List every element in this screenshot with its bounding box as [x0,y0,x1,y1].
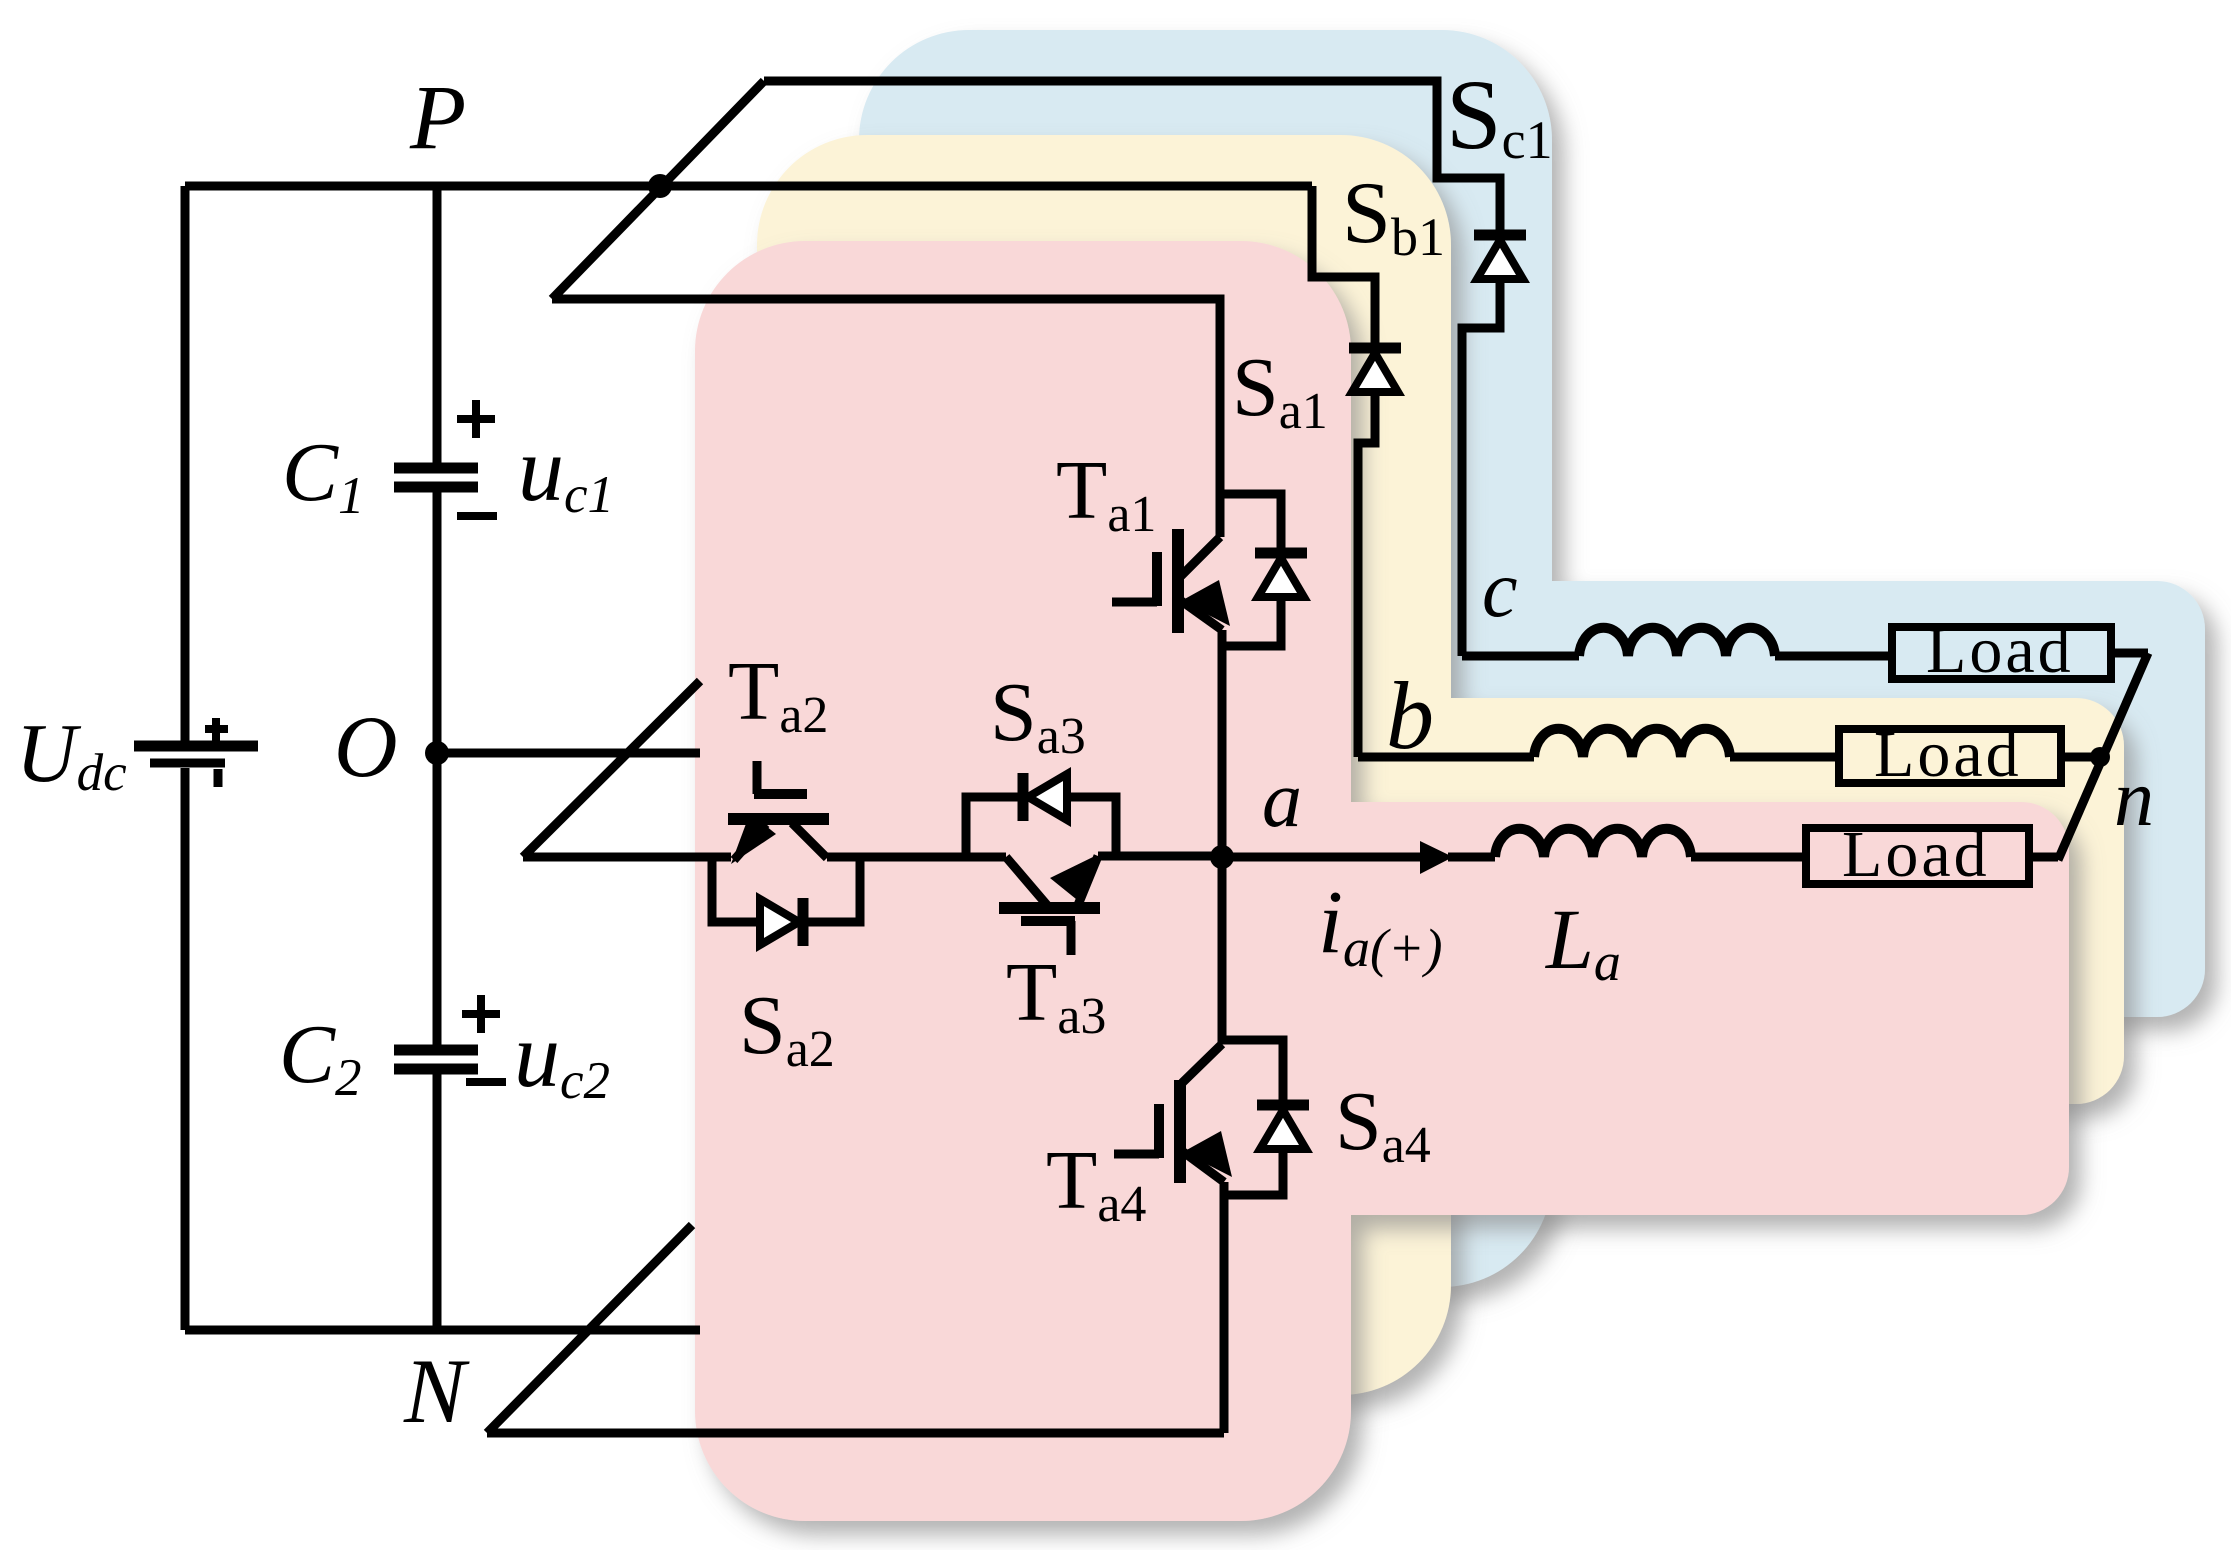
transistor T_a4 IGBT [1182,1044,1222,1083]
node n dot [2090,747,2110,767]
svg-text:b: b [1386,662,1434,769]
S_a4 diode loop [1222,1040,1283,1195]
wire left DC rail [181,186,190,1330]
svg-text:a: a [1262,756,1302,844]
svg-text:Load: Load [1926,614,2074,687]
capacitor C1 [394,463,478,474]
wire b-phase S_b1 drop [1312,186,1375,757]
node O dot [425,741,449,765]
diagonal middle node O [523,681,700,857]
load box b [1839,729,2061,783]
wire a output line [1222,853,1420,862]
phase b card (yellow) [757,135,2124,1395]
S_a2 diode loop [712,857,860,922]
wire a-phase P line [552,299,1220,537]
svg-text:N: N [403,1340,470,1442]
capacitor C2 [394,1045,478,1056]
wire bottom N rail [185,1326,700,1335]
phase a card (pink) [695,241,2069,1521]
S_a1 diode loop [1220,494,1281,646]
node a dot [1210,845,1234,869]
svg-text:Load: Load [1842,818,1990,891]
svg-text:Load: Load [1874,718,2022,791]
diagonal bottom node N [487,1225,692,1433]
diode S_a4 [1257,1100,1309,1111]
wire a N line [487,1429,1224,1438]
inductor L_b [1534,729,1730,757]
wire b output line [1358,753,1534,762]
diode S_a3 [1018,773,1029,821]
svg-text:O: O [334,699,398,796]
transistor T_a2 IGBT [728,813,829,825]
diode S_a2 [798,898,809,946]
battery U_dc [134,741,258,752]
transistor T_a1 IGBT [1181,537,1220,576]
wire a column below node [1218,857,1227,1044]
wire top P rail [185,182,1312,191]
diode S_c1 [1474,230,1526,241]
wire n diagonal [2058,653,2148,860]
S_a3 diode loop [966,797,1116,857]
diode S_a1 [1255,548,1307,559]
inductor L_c [1579,628,1775,656]
phase c card (blue) [859,30,2205,1287]
wire a middle from diagonal [523,853,731,862]
wire O rail [437,749,700,758]
svg-text:P: P [409,66,466,168]
inductor L_a [1495,829,1691,857]
load box c [1892,627,2111,679]
svg-text:n: n [2114,755,2154,843]
wire c-phase P line [764,81,1500,656]
wire c output line [1462,652,1579,661]
wire capacitor branch [433,186,442,1330]
load box a [1806,828,2029,884]
node P dot [648,174,672,198]
current arrow i_a [1420,841,1453,874]
diode S_b1 [1349,343,1401,354]
svg-text:c: c [1482,546,1518,634]
transistor T_a3 IGBT [999,902,1100,914]
diagonal top node P [552,81,764,299]
